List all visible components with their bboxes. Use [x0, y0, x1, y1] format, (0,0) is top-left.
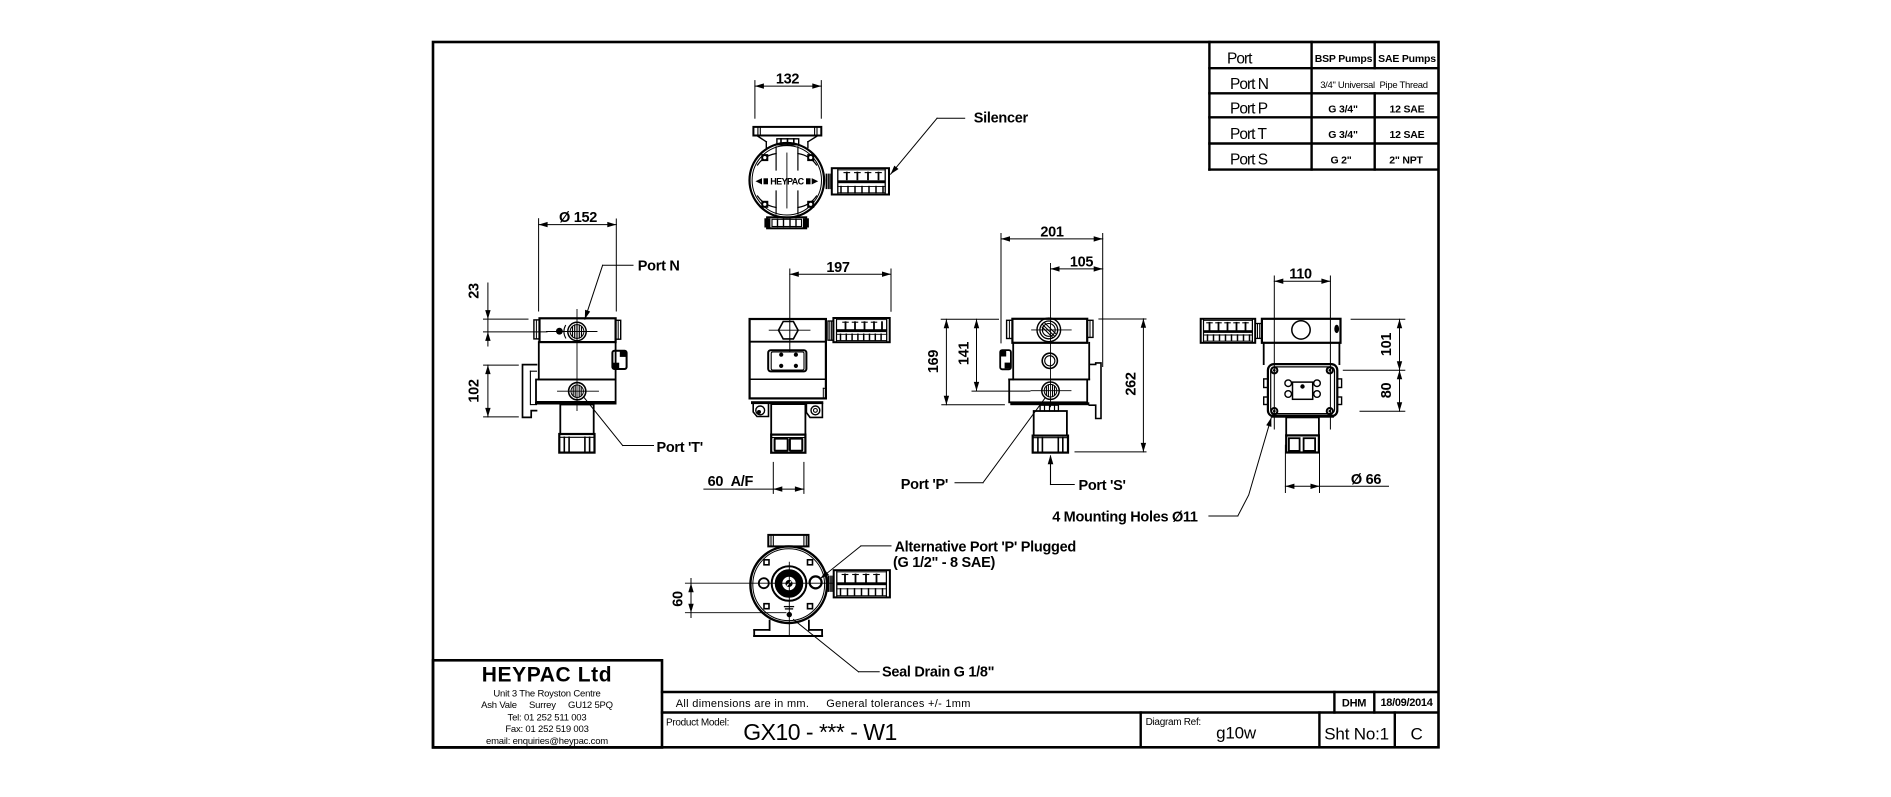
svg-text:email: enquiries@heypac.com: email: enquiries@heypac.com [486, 736, 608, 747]
dimension diameter 66 [1285, 445, 1388, 492]
svg-text:Port 'T': Port 'T' [657, 440, 703, 456]
front view pump section [536, 380, 616, 402]
product model row [666, 717, 1423, 745]
svg-text:60: 60 [671, 591, 687, 607]
svg-text:169: 169 [926, 350, 942, 374]
mounting holes label and leader [1052, 418, 1271, 526]
front view motor top cap [534, 318, 621, 342]
svg-text:DHM: DHM [1342, 698, 1366, 710]
back view rear mounting flange [1089, 363, 1101, 419]
svg-text:BSP Pumps: BSP Pumps [1315, 53, 1373, 65]
svg-text:Ø 66: Ø 66 [1351, 472, 1381, 488]
table row: Port S [1230, 152, 1424, 169]
svg-text:Diagram Ref:: Diagram Ref: [1146, 717, 1201, 728]
Port T label and leader [584, 397, 703, 456]
side view silencer connector [828, 321, 834, 340]
svg-text:197: 197 [826, 260, 850, 276]
svg-text:Port 'P': Port 'P' [901, 477, 948, 493]
table row: Port header [1227, 51, 1436, 68]
front view inlet fitting [559, 434, 594, 453]
back view gasket plate [1040, 405, 1058, 411]
bottom view bolt squares [764, 560, 813, 609]
front view mounting flange channel [523, 365, 537, 418]
svg-text:SAE Pumps: SAE Pumps [1378, 53, 1436, 65]
dimension 262 [1075, 319, 1146, 452]
drawing sheet frame [433, 42, 1439, 747]
bottom view top flange stub [768, 535, 808, 547]
bottom view right hole alternative port [810, 576, 822, 588]
Port N label and leader [585, 258, 680, 319]
svg-text:262: 262 [1123, 372, 1139, 396]
svg-text:Unit 3 The Royston Centre: Unit 3 The Royston Centre [493, 688, 600, 699]
bottom view foot flange [754, 621, 822, 636]
svg-text:18/09/2014: 18/09/2014 [1380, 697, 1433, 709]
company title box [433, 660, 662, 747]
svg-text:Port N: Port N [638, 258, 680, 274]
svg-text:HEYPAC Ltd: HEYPAC Ltd [482, 664, 612, 687]
top view corner bolts [761, 154, 814, 208]
right view silencer [1201, 319, 1256, 343]
dimension 60 A/F [704, 462, 804, 493]
back view motor top cap [1007, 319, 1093, 343]
front view base thick line [535, 402, 617, 405]
dimension 201 [1001, 224, 1103, 366]
svg-text:Alternative Port 'P' Plugged: Alternative Port 'P' Plugged [895, 540, 1076, 556]
svg-text:2" NPT: 2" NPT [1389, 155, 1423, 167]
svg-text:101: 101 [1379, 333, 1395, 357]
svg-text:All dimensions are in mm.: All dimensions are in mm. [676, 698, 809, 710]
side view body [750, 319, 826, 398]
right view mounting plate [1268, 364, 1337, 416]
table row: Port N [1230, 76, 1428, 93]
bottom view silencer [834, 570, 890, 597]
back view center hole [1042, 353, 1057, 368]
svg-text:Port P: Port P [1230, 101, 1268, 118]
right view gearbox detail [1285, 380, 1320, 399]
side view base thick line [751, 401, 823, 404]
svg-text:Silencer: Silencer [974, 111, 1029, 127]
svg-text:Seal Drain G 1/8": Seal Drain G 1/8" [882, 664, 994, 680]
svg-text:HEYPAC: HEYPAC [770, 177, 804, 187]
top view silencer body [832, 168, 889, 194]
front view centerlines [547, 310, 598, 411]
right view silencer connector [1255, 324, 1262, 339]
svg-text:G 3/4": G 3/4" [1328, 129, 1358, 141]
svg-text:(G 1/2" - 8 SAE): (G 1/2" - 8 SAE) [893, 555, 995, 571]
svg-text:Fax: 01 252 519 003: Fax: 01 252 519 003 [505, 724, 588, 735]
silencer label and leader [891, 111, 1029, 175]
side view right foot [806, 404, 822, 417]
front view Port N boss [564, 322, 586, 340]
side view hex plug [769, 322, 810, 339]
svg-text:132: 132 [776, 72, 800, 88]
back view inlet fitting [1033, 436, 1068, 453]
svg-text:Port N: Port N [1230, 76, 1268, 93]
svg-text:Product Model:: Product Model: [666, 718, 729, 729]
right view motor top cap [1262, 319, 1341, 343]
top view HEYPAC logo band [756, 177, 819, 187]
top view mounting flange [753, 127, 821, 148]
svg-text:201: 201 [1040, 224, 1064, 240]
seal drain label and leader [794, 620, 995, 681]
right view mid body [1264, 343, 1340, 364]
front view air inlet neck [560, 405, 593, 435]
svg-text:Port 'S': Port 'S' [1079, 478, 1126, 494]
side view inlet neck [771, 404, 805, 435]
dimension 23 [467, 283, 548, 346]
table row: Port P [1230, 101, 1425, 118]
top view motor housing circle [750, 143, 825, 218]
dimension 105 [1051, 254, 1103, 271]
side view silencer [833, 318, 889, 342]
right view base thick line [1272, 415, 1334, 418]
svg-text:General tolerances +/- 1mm: General tolerances +/- 1mm [826, 698, 970, 710]
back view left boss [1000, 350, 1011, 369]
svg-text:3/4" Universal Pipe Thread: 3/4" Universal Pipe Thread [1320, 80, 1428, 91]
top view gasket under flange [777, 139, 799, 145]
svg-text:Ø 152: Ø 152 [559, 210, 597, 226]
svg-text:Sht No:1: Sht No:1 [1324, 725, 1389, 744]
svg-text:141: 141 [956, 342, 972, 366]
svg-text:4 Mounting Holes Ø11: 4 Mounting Holes Ø11 [1052, 510, 1198, 526]
svg-text:Port S: Port S [1230, 152, 1268, 169]
svg-text:80: 80 [1379, 383, 1395, 399]
svg-text:12 SAE: 12 SAE [1390, 104, 1425, 116]
alternative port label and leader [820, 540, 1076, 579]
company name and address [481, 664, 613, 748]
svg-text:Port: Port [1227, 51, 1253, 68]
side view name plate [768, 350, 806, 371]
dimension 197 [790, 260, 891, 352]
top view silencer connector [826, 174, 832, 188]
right view side tabs [1264, 379, 1342, 405]
table row: Port T [1230, 126, 1425, 143]
title block grid lines [662, 692, 1438, 747]
back view Port N cap [1032, 318, 1072, 342]
svg-text:Tel: 01 252 511 003: Tel: 01 252 511 003 [508, 712, 587, 723]
front view motor body [539, 342, 616, 379]
back view mid body [1009, 343, 1089, 380]
top view centerline [786, 153, 788, 208]
dimension 132 [755, 72, 821, 119]
dimension 141 [956, 319, 1030, 391]
dimension 102 [466, 365, 518, 417]
dimension 110 [1274, 267, 1330, 429]
front view right side boss [612, 351, 626, 369]
back view centerline [1050, 264, 1052, 407]
svg-text:Port T: Port T [1230, 126, 1267, 143]
svg-text:60 A/F: 60 A/F [708, 474, 754, 490]
svg-text:105: 105 [1070, 254, 1094, 270]
dimension 60 [671, 579, 787, 618]
bottom view left hole [759, 578, 769, 588]
svg-text:g10w: g10w [1216, 724, 1257, 743]
dimension 80 [1360, 370, 1405, 411]
back view pump section [1009, 379, 1087, 402]
svg-text:GX10 - *** - W1: GX10 - *** - W1 [743, 719, 897, 745]
svg-text:102: 102 [466, 379, 482, 403]
right view mounting holes [1271, 367, 1333, 414]
dimension 101 [1343, 319, 1405, 370]
bottom view shaft coupling [772, 566, 807, 601]
right view inlet fitting [1286, 435, 1319, 452]
bottom view silencer connector [828, 576, 833, 591]
right view inlet neck [1286, 417, 1319, 435]
svg-text:12 SAE: 12 SAE [1390, 129, 1425, 141]
side view inlet fitting [771, 435, 805, 453]
tolerance note row [676, 697, 1434, 710]
back view base thick line [1010, 402, 1089, 405]
dimension diameter 152 [539, 210, 617, 311]
port specification table [1209, 42, 1438, 170]
svg-text:G 2": G 2" [1330, 155, 1351, 167]
svg-text:Ash Vale Surrey GU12 5: Ash Vale Surrey GU12 5PQ [481, 700, 613, 711]
side view left foot [753, 404, 768, 416]
front view vent dot [556, 328, 563, 335]
Port P label and leader [901, 398, 1046, 493]
svg-text:C: C [1410, 725, 1422, 744]
top view casting cross [758, 147, 817, 214]
dimension 169 [926, 319, 1004, 404]
top view bottom flange [764, 217, 809, 228]
bottom view centerlines [685, 562, 834, 636]
front view Port T [558, 383, 599, 400]
back view Port P [1031, 382, 1071, 399]
svg-text:110: 110 [1289, 267, 1312, 283]
Port S label and arrow [1048, 455, 1126, 494]
svg-text:23: 23 [467, 283, 483, 299]
back view inlet neck [1034, 411, 1067, 436]
bottom view seal drain [785, 607, 794, 618]
bottom view motor circle [750, 546, 827, 623]
svg-text:G 3/4": G 3/4" [1328, 104, 1358, 116]
